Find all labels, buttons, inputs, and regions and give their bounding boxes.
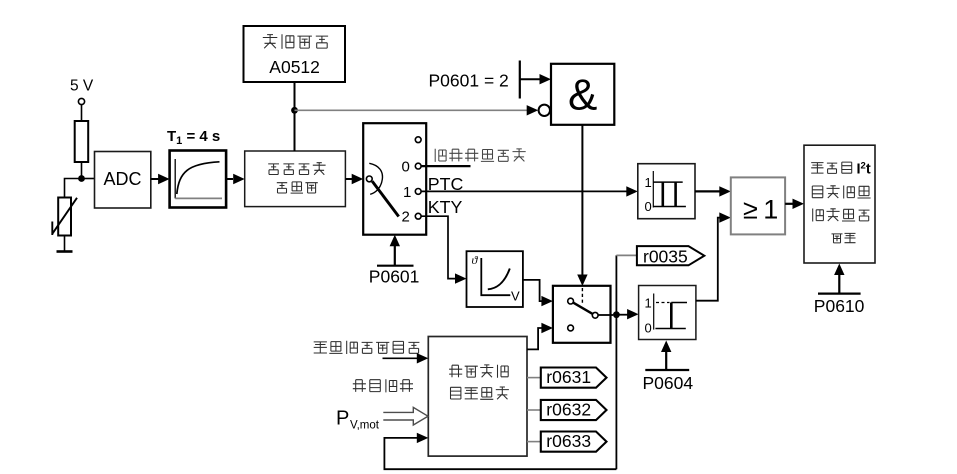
- terminal 5V: [78, 98, 84, 104]
- wire tick to AND input 1: [520, 74, 551, 84]
- wire KTY net (contact 2 to KTY curve): [421, 216, 466, 284]
- switch S1 contact 0: [415, 163, 421, 169]
- node A junction: [78, 175, 85, 182]
- wire S2 output to junction: [598, 314, 613, 316]
- P0601 parameter arrow into switch S1: [377, 235, 414, 266]
- label line3 取的应对: [813, 209, 870, 222]
- wire alarm net to AND gate (gray): [295, 109, 528, 111]
- label 等效电路的数据: [314, 341, 420, 354]
- label line1 电动机 I²t: [811, 161, 871, 178]
- parameter tag r0632: [541, 400, 607, 421]
- junction temperature signal: [613, 311, 620, 318]
- P0610 parameter arrow into reaction block: [818, 264, 861, 294]
- wire thermistor to ground: [64, 236, 66, 252]
- svg-text:r0631: r0631: [546, 367, 591, 387]
- node 5V supply label: [70, 78, 94, 95]
- pin label 0: [402, 159, 410, 176]
- wire H1 to OR gate: [695, 186, 731, 196]
- switch S1 contact 1: [415, 189, 421, 195]
- label line2 过温时采: [812, 186, 870, 199]
- svg-text:P: P: [336, 408, 349, 430]
- svg-text:0: 0: [645, 321, 652, 336]
- svg-text:r0633: r0633: [546, 431, 591, 451]
- wire node A to ADC: [82, 178, 95, 180]
- wire node A to thermistor: [65, 179, 82, 198]
- svg-text:T1 = 4 s: T1 = 4 s: [167, 128, 220, 147]
- wire model to r0633 tag: [527, 441, 541, 443]
- wire AND output down to switch 2 control: [577, 125, 587, 286]
- pin label 2: [402, 209, 410, 226]
- ADC block U1: [95, 152, 151, 209]
- switch S2 contact A: [568, 298, 574, 304]
- wire model to switch 2 input B: [527, 323, 553, 350]
- switch S2 output contact: [592, 312, 598, 318]
- svg-text:A0512: A0512: [269, 57, 320, 77]
- switch S2 box (model/sensor select): [553, 286, 611, 343]
- label 电动机的: [449, 365, 508, 378]
- label P0604: [643, 373, 694, 393]
- svg-text:V,mot: V,mot: [350, 420, 380, 432]
- wire stub no-sensor (contact 0): [421, 165, 470, 167]
- hysteresis block H2: [639, 286, 696, 340]
- wire junction to hysteresis 2: [616, 309, 638, 319]
- open arrow P_V,mot into model: [383, 407, 428, 425]
- svg-text:V: V: [511, 289, 520, 304]
- inverted input arrow on AND input 2: [527, 105, 539, 115]
- switch S2 lever: [573, 303, 592, 314]
- svg-text:1: 1: [645, 296, 652, 311]
- inversion bubble: [539, 105, 550, 116]
- svg-text:P0610: P0610: [814, 296, 865, 316]
- wire alarm box down to detection box: [294, 82, 296, 151]
- svg-text:P0601: P0601: [369, 267, 420, 287]
- label 的检测: [277, 182, 318, 193]
- wire equivalent-circuit-data into model: [383, 353, 429, 363]
- svg-text:5 V: 5 V: [70, 78, 94, 95]
- junction alarm net: [291, 107, 298, 114]
- switch S1 contact top: [415, 137, 421, 143]
- label 无温度传感器: [435, 149, 526, 162]
- label 功率损耗: [353, 379, 413, 392]
- label line4 措施: [832, 233, 856, 243]
- value label T1 = 4 s: [167, 128, 220, 147]
- wire H2 output up to OR gate input 2: [696, 212, 731, 300]
- wire junction vertical (to r0035 and feedback loop): [615, 255, 617, 469]
- block: KTY characteristic curve (theta/V): [467, 251, 523, 307]
- wire 5V to R1: [81, 105, 83, 121]
- dashed control line inside switch 2: [581, 288, 583, 304]
- svg-text:P0604: P0604: [643, 373, 694, 393]
- AND gate U2 (&): [551, 64, 614, 125]
- wire ADC to T1 filter: [151, 174, 170, 184]
- parameter tag r0631: [541, 367, 607, 388]
- switch S1 box (sensor type selector): [363, 123, 426, 235]
- svg-text:r0035: r0035: [643, 246, 688, 266]
- wire detection to switch P0601: [345, 174, 363, 184]
- label P0601 = 2: [429, 71, 509, 91]
- parameter tag r0633: [541, 431, 607, 452]
- pin label 1: [403, 184, 411, 201]
- svg-text:≥ 1: ≥ 1: [743, 195, 778, 225]
- label PTC: [428, 174, 464, 194]
- P0604 parameter arrow into H2: [645, 341, 689, 371]
- block: signal loss detection (xin hao diu shi de jian ce): [245, 151, 346, 207]
- label P0601: [369, 267, 420, 287]
- thermistor R2 (temperature sensor): [52, 198, 77, 236]
- wire PTC net (contact 1 to hysteresis 1): [421, 186, 638, 196]
- svg-text:&: &: [568, 71, 597, 120]
- switch S1 wiper pivot: [366, 163, 382, 194]
- constant input tick bar: [519, 61, 521, 99]
- label P V,mot: [336, 408, 380, 432]
- wire model to r0632 tag: [527, 409, 541, 411]
- OR gate U3 (>=1): [731, 177, 785, 234]
- svg-text:r0632: r0632: [546, 400, 591, 420]
- label KTY: [428, 197, 463, 217]
- wire to r0035 tag (gray): [616, 254, 637, 256]
- switch S1 contact 2: [415, 213, 421, 219]
- label A0512: [269, 57, 320, 77]
- block: motor temperature model: [428, 337, 527, 457]
- switch S2 contact B: [568, 325, 574, 331]
- wire KTY curve to switch 2 input A: [523, 280, 553, 306]
- wire OR gate to reaction block: [785, 199, 804, 209]
- svg-text:ADC: ADC: [104, 169, 142, 189]
- svg-text:KTY: KTY: [428, 197, 463, 217]
- wire feedback loop (bottom) into model: [384, 433, 616, 470]
- block: alarm message A0512 (bao jing xin xi): [244, 26, 346, 82]
- block: motor I2t overtemperature reaction: [804, 145, 875, 263]
- resistor R1: [75, 121, 89, 162]
- label 信号丢失: [268, 163, 325, 175]
- svg-text:P0601 = 2: P0601 = 2: [429, 71, 509, 91]
- label 报警信息: [263, 34, 328, 49]
- svg-text:1: 1: [403, 184, 411, 201]
- switch S1 lever to position 2: [372, 181, 399, 216]
- svg-text:2: 2: [402, 209, 410, 226]
- svg-text:1: 1: [645, 175, 652, 190]
- wire T1 to signal-loss detection: [226, 174, 245, 184]
- ground: [57, 250, 73, 253]
- wire model to r0631 tag: [527, 377, 541, 379]
- wire R1 to node A: [81, 162, 83, 179]
- svg-text:0: 0: [402, 159, 410, 176]
- filter block T1 (smoothing): [170, 151, 227, 208]
- parameter tag r0035: [637, 246, 704, 266]
- svg-text:0: 0: [645, 199, 652, 214]
- hysteresis block H1: [638, 164, 695, 219]
- label 温度模型: [451, 387, 509, 399]
- label P0610: [814, 296, 865, 316]
